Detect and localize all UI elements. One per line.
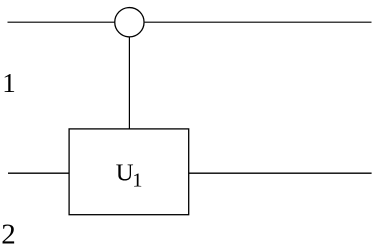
wire qubit-1 right segment <box>145 21 372 23</box>
gate box U1 <box>69 129 189 215</box>
svg-text:1: 1 <box>2 68 16 98</box>
wire control-to-gate vertical segment <box>128 37 130 129</box>
node label 1 (qubit 1) <box>2 68 16 98</box>
svg-text:1: 1 <box>132 169 142 191</box>
wire qubit-2 left segment <box>8 172 69 174</box>
svg-text:2: 2 <box>1 218 16 247</box>
label U1 (gate value) <box>116 160 143 192</box>
control node C (open circle) <box>115 8 144 37</box>
svg-text:U: U <box>116 160 134 187</box>
wire qubit-1 left segment <box>8 21 115 23</box>
node label 2 (qubit 2) <box>1 218 16 247</box>
wire qubit-2 right segment <box>189 172 372 174</box>
